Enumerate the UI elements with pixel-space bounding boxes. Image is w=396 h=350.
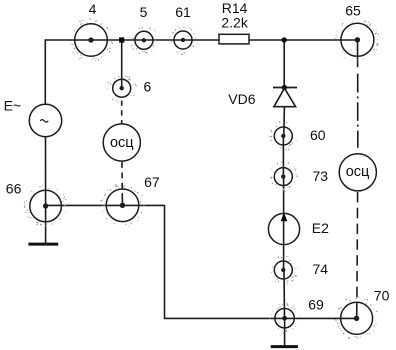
svg-text:74: 74	[313, 261, 329, 277]
wire: left vertical from corner down to E~ top	[44, 39, 46, 104]
wire: dashed link oscilloscope (left) to node 67	[121, 162, 124, 205]
svg-text:69: 69	[308, 296, 324, 312]
wire: node 66 down to ground	[45, 206, 47, 243]
svg-text:осц: осц	[110, 135, 134, 151]
svg-text:65: 65	[345, 3, 361, 19]
svg-text:6: 6	[144, 79, 152, 95]
ground (right, below node 69)	[271, 345, 298, 348]
svg-text:E~: E~	[4, 97, 22, 113]
node 67	[100, 174, 159, 227]
wire: E~ bottom down to node 66	[45, 136, 47, 206]
diode VD6	[228, 85, 297, 107]
node 66	[6, 181, 67, 227]
svg-text:5: 5	[140, 4, 148, 20]
source E~ (AC source)	[4, 97, 62, 136]
oscilloscope (right)	[339, 154, 376, 191]
svg-text:73: 73	[313, 168, 329, 184]
node 70	[334, 287, 389, 338]
svg-text:E2: E2	[312, 220, 329, 236]
svg-text:осц: осц	[346, 164, 370, 180]
node 6	[107, 75, 152, 102]
svg-text:70: 70	[374, 287, 390, 303]
wire: node 60 to node 73	[282, 136, 284, 177]
svg-text:67: 67	[144, 174, 160, 190]
node 4	[70, 1, 113, 61]
svg-text:60: 60	[310, 127, 326, 143]
wire: diode VD6 anode down to node 60	[283, 107, 286, 136]
wire: junction at R14 output down to diode VD6	[283, 40, 285, 88]
wire: bottom path node 66 to 67 to corner down and right to node 70	[46, 205, 357, 318]
wire: junction square down to node 6	[121, 40, 123, 88]
svg-text:61: 61	[175, 4, 191, 20]
wire: node 69 down to ground	[284, 318, 286, 345]
node 60	[269, 121, 326, 150]
wire: dashed link node 6 to oscilloscope (left)	[121, 101, 123, 124]
junction (square) top rail to node 6 branch	[119, 37, 124, 42]
svg-text:2.2k: 2.2k	[221, 14, 248, 30]
node 65	[335, 3, 379, 61]
svg-text:4: 4	[89, 1, 97, 17]
oscilloscope (left)	[103, 124, 140, 161]
wire: solid stub from node 65 center down to circle edge	[357, 40, 359, 67]
node 61	[169, 4, 198, 55]
wire: dashed link oscilloscope (right) to node 70	[356, 192, 359, 318]
wire: dash-dot link node 65 to oscilloscope (right)	[357, 74, 359, 148]
wire: top horizontal rail from left corner to node 65	[45, 39, 357, 41]
resistor R14 2.2k	[219, 0, 249, 44]
node 69	[269, 296, 324, 334]
node 74	[271, 256, 328, 285]
svg-text:VD6: VD6	[228, 91, 255, 107]
node 73	[270, 162, 328, 192]
wire: node 74 to node 69	[283, 270, 286, 318]
source E2 (with arrow)	[268, 213, 329, 244]
wire: node 73 through source E2 to node 74	[283, 177, 285, 270]
svg-text:66: 66	[6, 181, 22, 197]
node 5	[129, 4, 157, 54]
ground (left, below node 66)	[28, 243, 58, 246]
junction (dot) R14 output / node 65 / diode branch	[282, 37, 287, 42]
